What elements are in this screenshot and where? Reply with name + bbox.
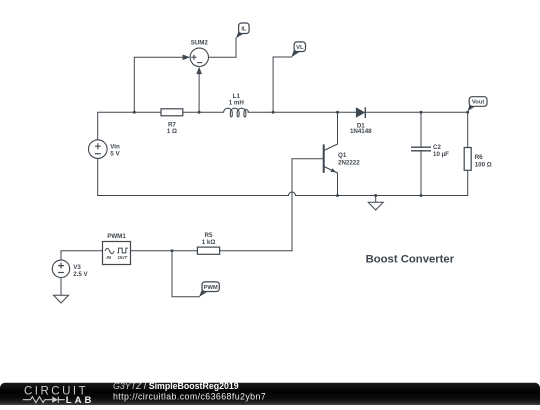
CircuitLab logo circuit glyph (resistor + diode): [23, 397, 65, 403]
wire SUM2 left input riser: [134, 57, 183, 112]
svg-text:2.5 V: 2.5 V: [73, 271, 88, 278]
ground (bottom rail): [368, 196, 383, 211]
svg-text:10 µF: 10 µF: [433, 151, 449, 158]
svg-text:1N4148: 1N4148: [350, 128, 372, 135]
junction node R7 left / SUM2 input: [133, 111, 136, 114]
junction node VL tap: [272, 111, 275, 114]
svg-text:100 Ω: 100 Ω: [475, 162, 492, 169]
wire Q1 collector riser: [337, 112, 339, 144]
wire V3 to PWM1: [61, 251, 103, 261]
svg-text:http://circuitlab.com/c63668fu: http://circuitlab.com/c63668fu2ybn7: [113, 391, 266, 401]
svg-text:VL: VL: [296, 45, 304, 51]
flag VL: [291, 42, 305, 57]
flag PWM: [199, 282, 219, 297]
voltage source V3: [52, 260, 69, 277]
junction node C2 top: [420, 111, 423, 114]
svg-text:Q1: Q1: [338, 152, 347, 159]
wire R6 bottom: [467, 170, 469, 195]
wire VL flag riser: [273, 57, 292, 112]
capacitor C2: [411, 147, 431, 151]
svg-text:Vout: Vout: [472, 100, 485, 106]
wire C2 top: [420, 112, 422, 147]
junction node Q1 collector / D1 anode: [336, 111, 339, 114]
svg-text:G3YTZ / SimpleBoostReg2019: G3YTZ / SimpleBoostReg2019: [113, 381, 239, 391]
wire Vin bottom to ground rail: [97, 158, 99, 195]
wire V3 to ground: [60, 277, 62, 295]
svg-text:C2: C2: [433, 144, 441, 151]
wire D1 cathode to Vout node: [365, 111, 467, 113]
wire bottom rail with hop over base riser: [98, 192, 468, 195]
junction node Vout: [466, 111, 469, 114]
wire PWM1 out to R5: [131, 250, 198, 252]
junction node ground tap: [374, 194, 377, 197]
wire R7 to L1: [183, 111, 224, 113]
resistor R7: [161, 109, 183, 116]
wire R6 top: [467, 112, 469, 147]
resistor R5: [197, 247, 219, 254]
junction node PWM tap: [171, 249, 174, 252]
svg-text:IL: IL: [241, 27, 247, 33]
wire top rail left (Vin to R7): [98, 112, 161, 140]
wire SUM2 bottom input riser: [198, 74, 200, 112]
wire C2 bottom: [420, 151, 422, 196]
svg-text:Vin: Vin: [110, 143, 120, 150]
svg-text:V3: V3: [73, 264, 81, 271]
wire Q1 base riser from R5 row: [292, 159, 324, 251]
resistor R6: [464, 148, 471, 171]
wire L1 to D1 anode: [248, 111, 356, 113]
wire PWM flag drop: [172, 251, 199, 297]
svg-text:R6: R6: [475, 154, 483, 161]
svg-text:1 mH: 1 mH: [229, 100, 245, 107]
svg-text:PWM1: PWM1: [107, 233, 126, 240]
svg-text:IN: IN: [106, 255, 111, 260]
svg-text:2N2222: 2N2222: [338, 159, 360, 166]
inductor L1: [224, 108, 249, 117]
flag Vout: [468, 97, 488, 112]
wire R5 to base riser corner: [220, 250, 292, 252]
junction node Q1 emitter on ground rail: [336, 194, 339, 197]
svg-text:1 kΩ: 1 kΩ: [202, 239, 216, 246]
flag IL: [236, 23, 249, 38]
diode D1: [356, 107, 365, 118]
wire Q1 emitter to bottom rail: [337, 173, 339, 196]
ground (V3): [54, 295, 69, 303]
transistor Q1: [324, 144, 338, 173]
summer U: SUM2: [183, 48, 209, 74]
svg-text:OUT: OUT: [117, 255, 128, 260]
junction node R7 right / SUM2 bottom input: [198, 111, 201, 114]
svg-text:1 Ω: 1 Ω: [167, 128, 177, 135]
svg-text:Boost Converter: Boost Converter: [366, 253, 455, 265]
svg-text:5 V: 5 V: [110, 150, 120, 157]
svg-text:SUM2: SUM2: [191, 40, 209, 47]
voltage source Vin: [89, 140, 108, 159]
junction node C2 bottom: [420, 194, 423, 197]
CircuitLab logo wordmark: [24, 386, 94, 406]
svg-text:LAB: LAB: [66, 395, 95, 405]
behavioral block PWM1: [103, 242, 131, 265]
wire SUM2 output to IL flag: [209, 38, 237, 57]
svg-text:PWM: PWM: [204, 285, 218, 291]
